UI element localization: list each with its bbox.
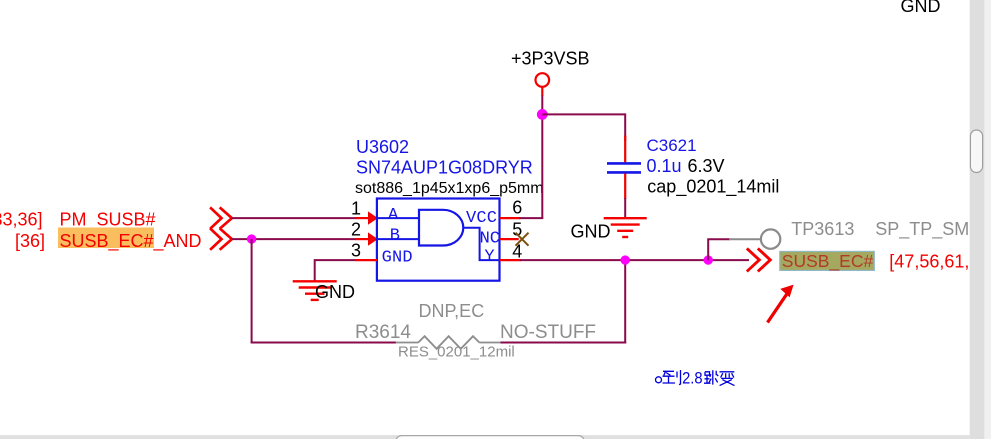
svg-text:[36]: [36] — [15, 231, 45, 251]
no-connect X on pin 5 — [516, 233, 529, 246]
svg-text:6: 6 — [512, 198, 522, 218]
svg-text:sot886_1p45x1xp6_p5mm: sot886_1p45x1xp6_p5mm — [355, 180, 544, 197]
svg-text:SUSB_EC#_AND: SUSB_EC#_AND — [60, 231, 202, 252]
char o — [656, 377, 662, 383]
svg-text:NO-STUFF: NO-STUFF — [500, 322, 596, 343]
junction node Y / bottom loop — [621, 255, 630, 264]
scrollbar bottom thumb — [396, 436, 584, 439]
svg-text:SP_TP_SMD: SP_TP_SMD — [875, 219, 982, 240]
off-page connector chevron SUSB_EC#_AND — [211, 229, 232, 249]
svg-text:5: 5 — [512, 220, 522, 240]
svg-text:+3P3VSB: +3P3VSB — [511, 49, 590, 69]
svg-text:cap_0201_14mil: cap_0201_14mil — [647, 176, 779, 197]
svg-text:[47,56,61,: [47,56,61, — [889, 251, 969, 271]
ground symbol at C3621 — [604, 218, 647, 237]
svg-text:SN74AUP1G08DRYR: SN74AUP1G08DRYR — [356, 157, 533, 177]
wire pin3 to ground — [315, 260, 356, 280]
wire SUSB_EC#_AND to U3602 pin 2 — [232, 238, 356, 240]
svg-text:0.1u: 0.1u — [647, 156, 682, 176]
test point TP3613 circle — [761, 229, 780, 248]
wire Y net to SUSB_EC# — [520, 259, 749, 261]
junction node Y / test point — [704, 255, 713, 264]
annotation text o到2.8跳变 (blue) — [656, 370, 681, 385]
wire to test point — [708, 239, 730, 260]
gate output wire (blue) — [464, 228, 499, 260]
svg-text:VCC: VCC — [466, 209, 497, 228]
power stub (red) — [541, 87, 543, 96]
test point lead (gray) — [729, 238, 761, 240]
wire bottom loop right vertical — [624, 260, 626, 343]
svg-text:3: 3 — [351, 241, 361, 261]
pin 1 input arrow — [368, 211, 378, 224]
char 跳 — [704, 370, 718, 384]
svg-text:U3602: U3602 — [356, 137, 409, 157]
svg-text:Y: Y — [484, 247, 494, 266]
wire +3P3VSB to C3621 — [542, 114, 625, 141]
capacitor C3621 plates — [607, 162, 641, 165]
gate input wire B (blue) — [378, 238, 418, 240]
AND gate symbol — [419, 210, 463, 246]
pin 1 stub (red) — [356, 217, 370, 219]
wire C3621 to ground — [624, 198, 626, 217]
scrollbar bottom track — [0, 435, 970, 439]
ground symbol at pin 3 — [293, 281, 337, 300]
svg-text:1: 1 — [351, 199, 361, 219]
off-page connector chevron SUSB_EC# (out) — [748, 249, 770, 270]
svg-text:GND: GND — [315, 282, 355, 302]
pin 2 input arrow — [368, 232, 378, 245]
pin 2 stub (red) — [356, 238, 370, 240]
svg-text:RES_0201_12mil: RES_0201_12mil — [398, 344, 515, 361]
capacitor C3621 top stub (red) — [624, 136, 626, 163]
scrollbar right track — [970, 0, 985, 439]
svg-text:NC: NC — [480, 229, 500, 248]
char 变 — [720, 372, 735, 386]
svg-text:2: 2 — [351, 220, 361, 240]
annotation arrow (red) — [768, 293, 788, 323]
svg-text:C3621: C3621 — [647, 136, 697, 155]
svg-text:A: A — [388, 206, 399, 225]
pin NC stub (red) — [500, 238, 519, 240]
wire bottom loop horizontal (right of R3614) — [501, 342, 627, 344]
pin 3 stub (red) — [356, 259, 378, 261]
pin Y stub (red) — [500, 259, 522, 261]
gate input wire A (blue) — [378, 217, 418, 219]
char 到 — [663, 370, 681, 385]
junction node SUSB_EC#_AND — [247, 234, 256, 243]
svg-text:SUSB_EC#: SUSB_EC# — [782, 251, 874, 272]
highlight box SUSB_EC# (orange) — [58, 228, 154, 249]
svg-text:[33,36]: [33,36] — [0, 210, 43, 230]
wire +3P3VSB down to VCC — [541, 96, 543, 219]
capacitor C3621 bottom stub (red) — [624, 174, 626, 200]
svg-text:6.3V: 6.3V — [688, 156, 725, 176]
scrollbar right thumb — [970, 130, 982, 173]
svg-text:GND: GND — [382, 248, 413, 267]
pin VCC stub (red) — [500, 217, 521, 219]
op-amp / AND gate U3602 body rect — [377, 199, 500, 281]
wire PM_SUSB# to U3602 pin 1 — [232, 217, 356, 219]
svg-text:B: B — [390, 226, 400, 245]
svg-text:TP3613: TP3613 — [791, 219, 854, 239]
wire bottom loop horizontal (left of R3614) — [251, 342, 396, 344]
power circle — [536, 73, 550, 87]
svg-text:R3614: R3614 — [355, 322, 411, 343]
wire bottom loop left vertical — [251, 239, 253, 342]
svg-text:2.8: 2.8 — [682, 369, 703, 388]
resistor R3614 (DNP, gray) — [396, 336, 501, 349]
svg-text:GND: GND — [901, 0, 941, 16]
junction node +3P3VSB — [537, 109, 548, 120]
svg-text:DNP,EC: DNP,EC — [419, 301, 485, 321]
wire VCC to +3P3VSB — [520, 217, 544, 219]
net label box SUSB_EC# (olive highlight) — [780, 251, 875, 270]
svg-text:GND: GND — [571, 222, 611, 242]
off-page connector chevron PM_SUSB# — [211, 208, 232, 228]
